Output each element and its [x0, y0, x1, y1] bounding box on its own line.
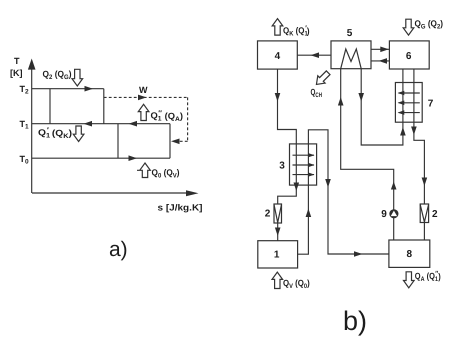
svg-text:1: 1 [274, 250, 280, 261]
svg-text:[K]: [K] [10, 68, 23, 78]
svg-text:6: 6 [406, 51, 412, 62]
svg-text:T: T [14, 56, 20, 66]
svg-text:s [J/kg.K]: s [J/kg.K] [158, 203, 203, 213]
svg-text:W: W [139, 85, 148, 95]
svg-text:3: 3 [279, 161, 285, 172]
svg-text:2: 2 [265, 209, 271, 220]
svg-text:9: 9 [381, 209, 387, 220]
svg-text:8: 8 [407, 249, 413, 260]
svg-text:5: 5 [347, 28, 353, 39]
svg-text:QA (Q1″): QA (Q1″) [415, 269, 441, 283]
svg-text:a): a) [109, 238, 128, 261]
svg-text:2: 2 [432, 209, 438, 220]
svg-text:7: 7 [428, 99, 434, 110]
svg-text:QK (Q1′): QK (Q1′) [283, 23, 310, 37]
svg-text:4: 4 [275, 51, 281, 62]
svg-text:b): b) [343, 306, 367, 336]
